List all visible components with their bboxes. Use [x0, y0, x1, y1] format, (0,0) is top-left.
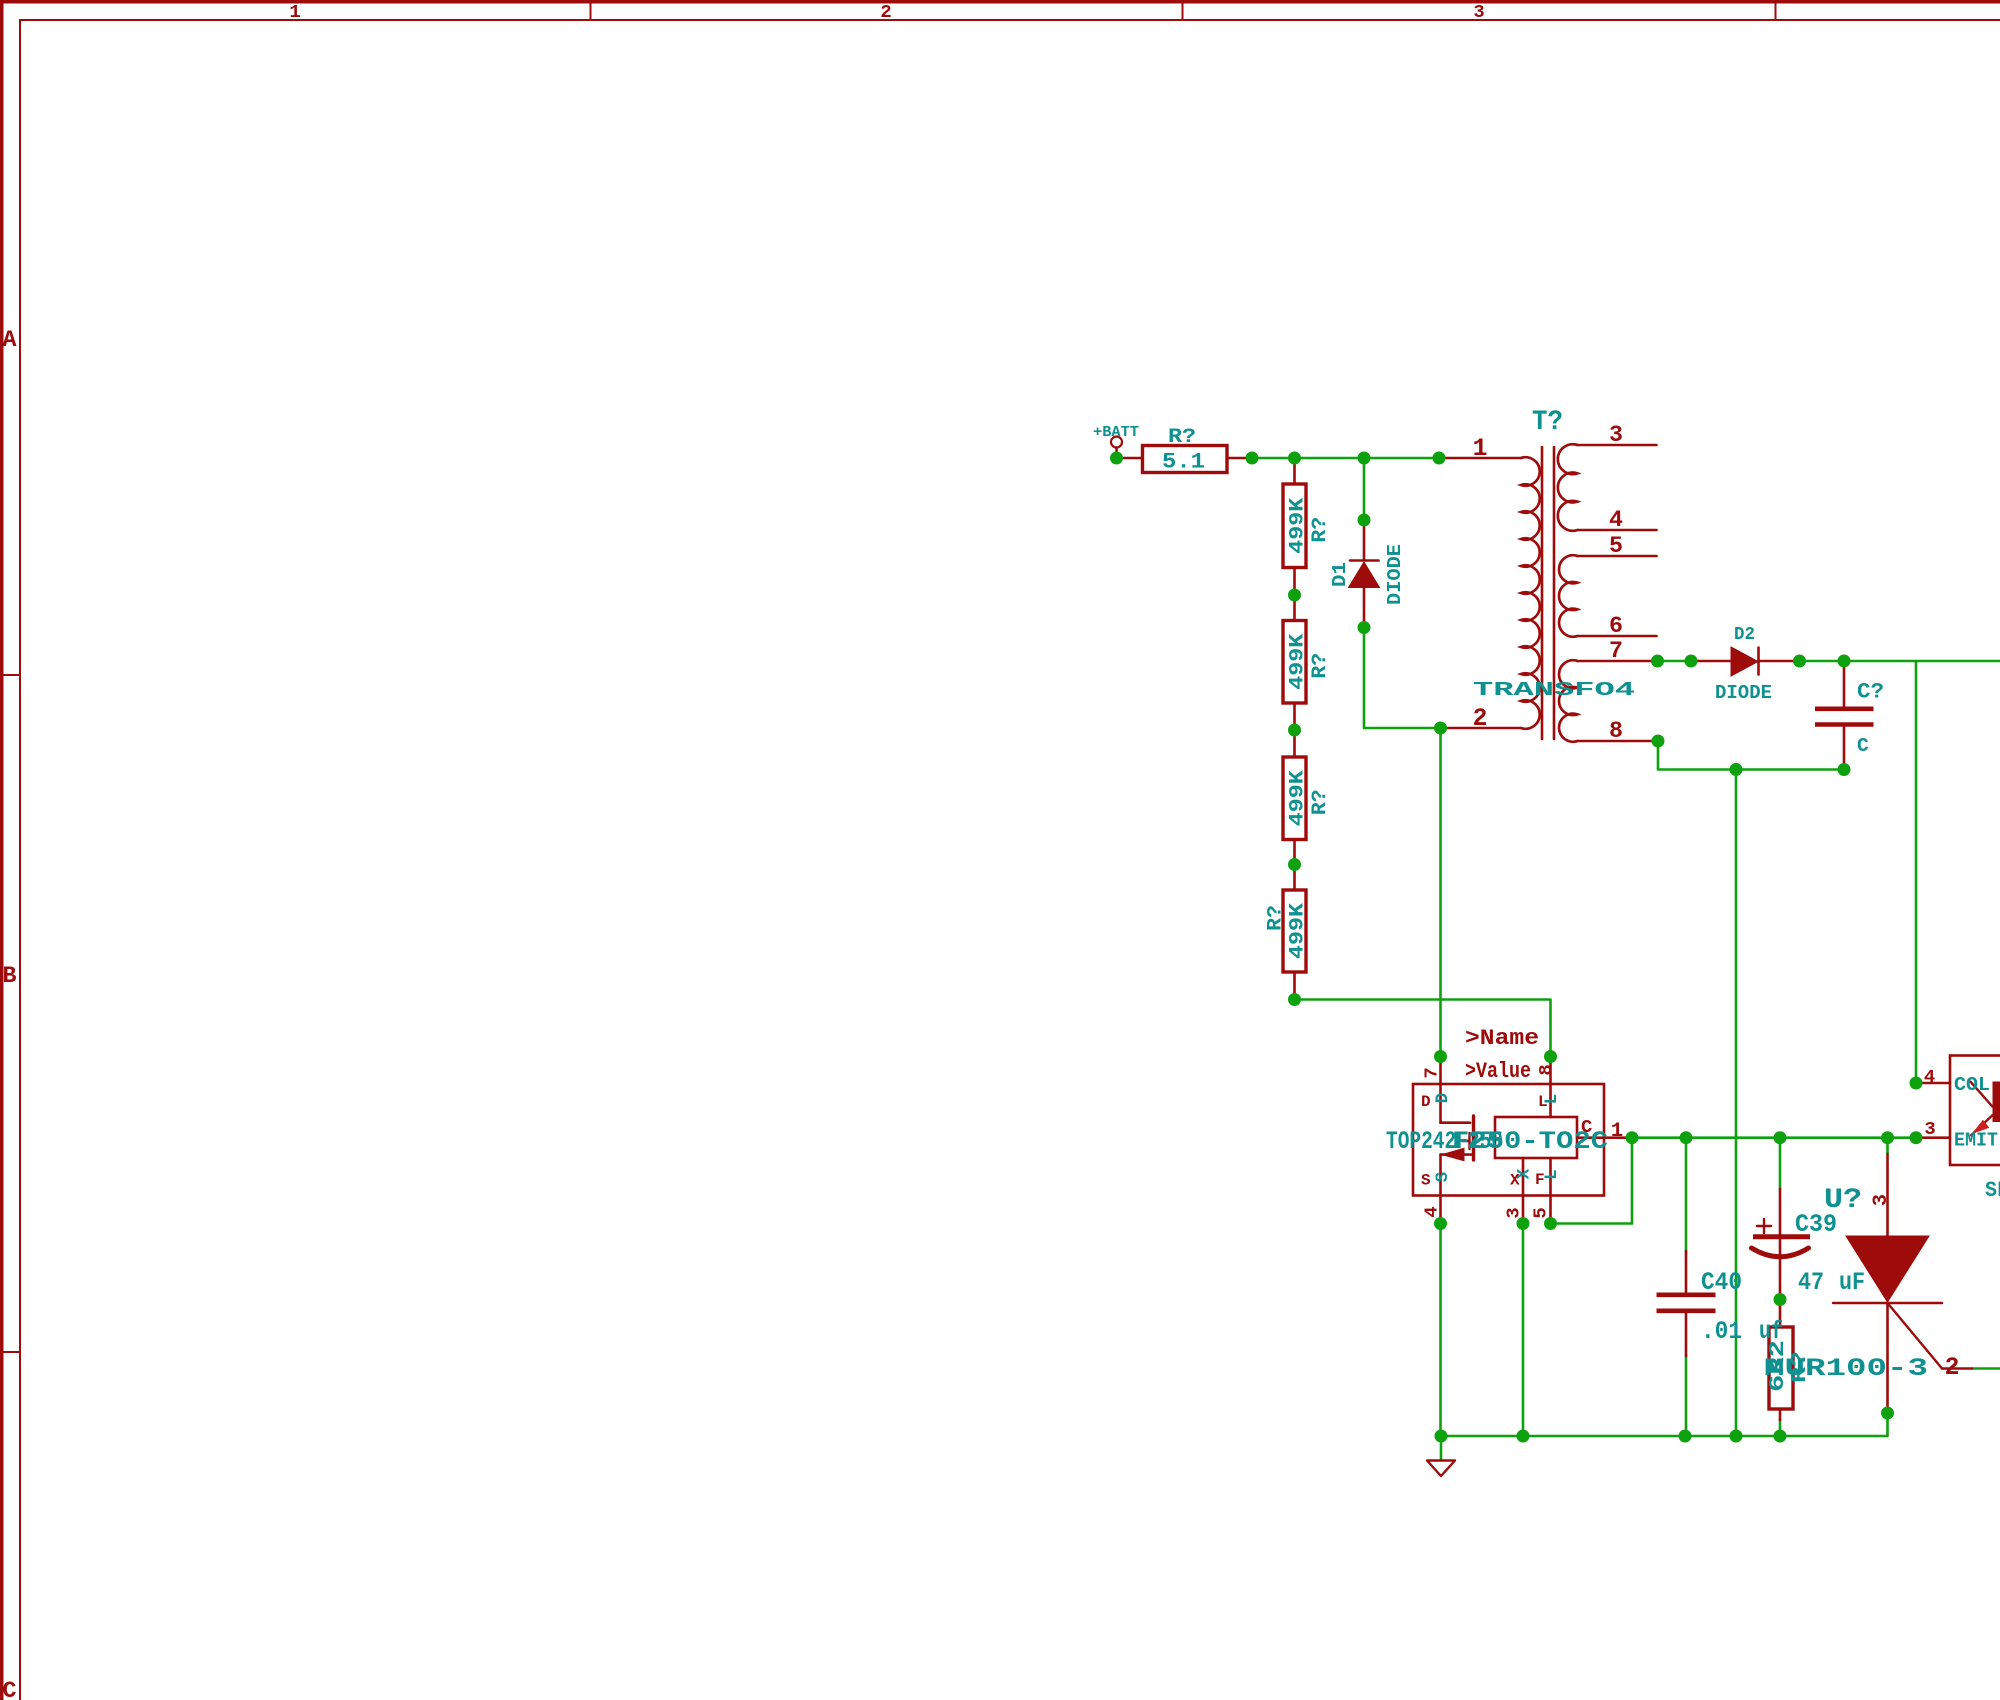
svg-text:S: S	[1421, 1172, 1431, 1190]
svg-text:D: D	[1421, 1093, 1431, 1111]
svg-text:SF: SF	[1985, 1177, 2000, 1203]
svg-text:C?: C?	[1857, 679, 1884, 705]
svg-text:5: 5	[1609, 533, 1623, 559]
svg-text:7: 7	[1609, 638, 1623, 664]
svg-text:1: 1	[289, 1, 300, 23]
svg-text:EMIT: EMIT	[1954, 1129, 1998, 1151]
svg-text:2: 2	[880, 1, 891, 23]
svg-text:DIODE: DIODE	[1715, 682, 1772, 704]
svg-text:C: C	[3, 1678, 17, 1700]
svg-text:F250-TO2C: F250-TO2C	[1452, 1128, 1608, 1156]
svg-text:3: 3	[1924, 1118, 1935, 1140]
svg-text:6: 6	[1609, 613, 1623, 639]
svg-text:4: 4	[1609, 507, 1623, 533]
svg-text:D: D	[1434, 1093, 1453, 1103]
svg-text:3: 3	[1473, 1, 1484, 23]
svg-text:2: 2	[1945, 1354, 1960, 1382]
svg-text:D1: D1	[1329, 562, 1351, 587]
svg-text:S: S	[1434, 1172, 1453, 1182]
svg-text:2: 2	[1473, 705, 1488, 733]
svg-text:C40: C40	[1701, 1268, 1742, 1297]
svg-text:A: A	[3, 327, 17, 353]
svg-text:U?: U?	[1824, 1185, 1862, 1216]
svg-text:4: 4	[1421, 1206, 1443, 1217]
svg-text:499K: 499K	[1287, 633, 1310, 690]
svg-text:COL: COL	[1954, 1074, 1990, 1096]
svg-text:X: X	[1516, 1168, 1535, 1179]
svg-text:TRANSFO4: TRANSFO4	[1473, 679, 1635, 701]
svg-text:47: 47	[1798, 1268, 1824, 1297]
svg-text:C: C	[1857, 735, 1869, 757]
svg-text:4: 4	[1924, 1066, 1935, 1088]
svg-text:uf: uf	[1759, 1317, 1783, 1346]
svg-text:R?: R?	[1309, 789, 1332, 815]
svg-text:DIODE: DIODE	[1384, 544, 1406, 605]
svg-text:B: B	[3, 963, 17, 989]
svg-text:3: 3	[1870, 1194, 1893, 1206]
svg-text:3: 3	[1609, 422, 1623, 448]
svg-text:+BATT: +BATT	[1093, 424, 1139, 441]
svg-text:R?: R?	[1168, 426, 1196, 449]
svg-text:499K: 499K	[1287, 497, 1310, 554]
svg-text:1: 1	[1611, 1120, 1623, 1143]
svg-text:>Name: >Name	[1465, 1025, 1539, 1051]
svg-text:7: 7	[1421, 1067, 1443, 1078]
svg-text:5: 5	[1530, 1207, 1552, 1218]
svg-text:R?: R?	[1309, 653, 1332, 679]
svg-text:R?: R?	[1265, 905, 1288, 931]
svg-text:8: 8	[1609, 718, 1623, 744]
svg-text:8: 8	[1535, 1064, 1557, 1075]
svg-text:1: 1	[1473, 435, 1488, 463]
svg-text:R?: R?	[1309, 517, 1332, 543]
svg-text:L: L	[1543, 1094, 1562, 1104]
svg-text:5.1: 5.1	[1162, 450, 1205, 475]
svg-text:3: 3	[1503, 1207, 1525, 1218]
svg-text:.01: .01	[1701, 1317, 1742, 1346]
svg-text:MUR100-3: MUR100-3	[1764, 1355, 1928, 1383]
svg-text:499K: 499K	[1287, 769, 1310, 826]
svg-text:L: L	[1543, 1169, 1562, 1179]
svg-text:>Value: >Value	[1465, 1058, 1531, 1084]
svg-text:499K: 499K	[1287, 902, 1310, 959]
svg-text:uF: uF	[1839, 1268, 1865, 1297]
svg-text:D2: D2	[1734, 623, 1755, 645]
svg-text:T?: T?	[1532, 407, 1563, 438]
